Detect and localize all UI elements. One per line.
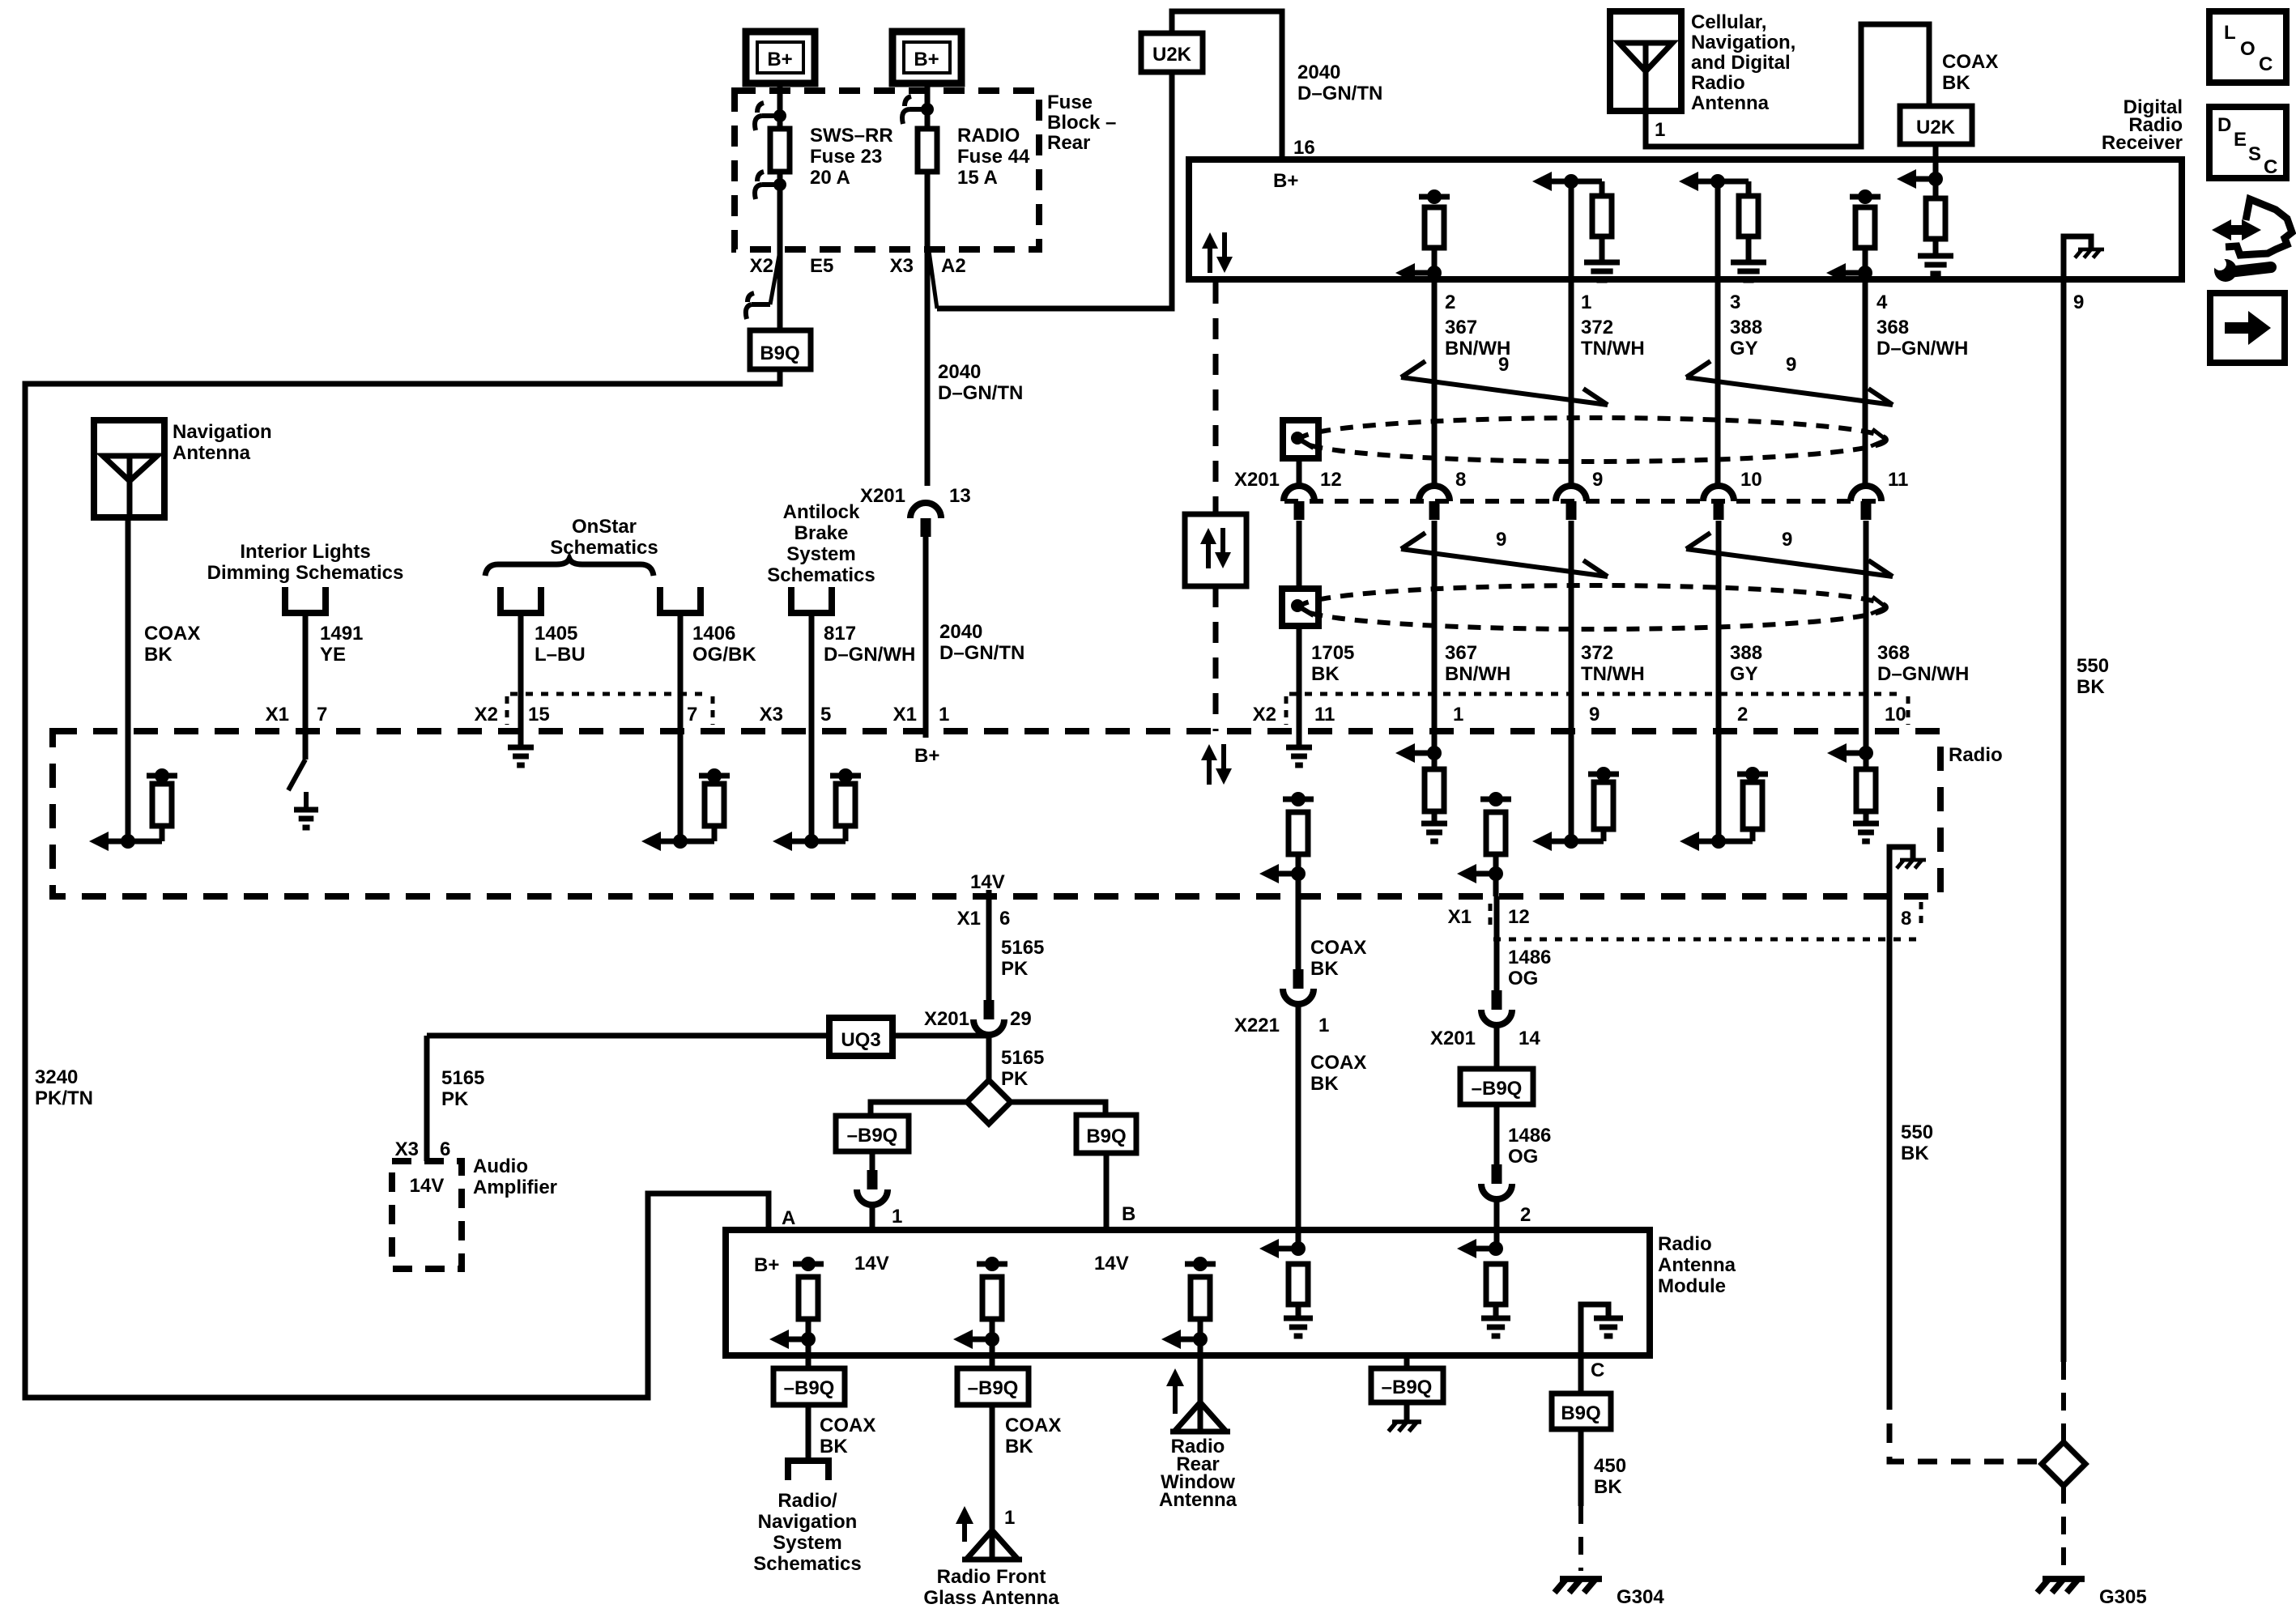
module B+ label: [754, 1254, 779, 1276]
svg-text:X1: X1: [893, 704, 917, 726]
wire 3240 PK/TN run to module pin A: [25, 369, 780, 1398]
svg-text:B+: B+: [1273, 170, 1298, 192]
wire splice to B9Q right: [1010, 1102, 1105, 1115]
offpage bracket interior lights: [285, 587, 326, 613]
svg-text:B9Q: B9Q: [760, 343, 799, 364]
svg-text:Glass Antenna: Glass Antenna: [923, 1587, 1059, 1609]
svg-text:D–GN/WH: D–GN/WH: [1876, 338, 1968, 360]
wire 450 BK solid: [1578, 1429, 1584, 1506]
inline connector X201-13: [910, 503, 941, 537]
svg-text:D–GN/TN: D–GN/TN: [939, 642, 1024, 664]
module 14V label 2: [1094, 1253, 1129, 1274]
radio 1705 ground: [1286, 731, 1312, 765]
svg-text:A: A: [782, 1207, 795, 1229]
svg-text:1: 1: [892, 1206, 902, 1228]
brace OnStar: [485, 559, 654, 576]
radio dimming input switch: [288, 731, 318, 828]
svg-text:YE: YE: [320, 644, 346, 666]
svg-text:12: 12: [1508, 906, 1530, 928]
updown box symbol: [1185, 514, 1246, 586]
svg-text:–B9Q: –B9Q: [968, 1377, 1019, 1399]
wire 550 BK from radio pin 8: [1887, 896, 1893, 1390]
receiver col pin3 resistor to ground: [1679, 172, 1766, 280]
label radio rear window antenna: [1159, 1436, 1237, 1511]
twisted pair ellipse 1: [1300, 418, 1886, 462]
option code B9Q 450: [1552, 1394, 1611, 1429]
coax wire nav antenna to radio: [126, 517, 131, 731]
svg-text:B9Q: B9Q: [1561, 1402, 1600, 1424]
dashed 450 BK to G304: [1578, 1506, 1583, 1571]
inline connector pin 2 module: [1481, 1164, 1531, 1226]
inline connector X201-8: [1419, 469, 1466, 520]
svg-text:Antenna: Antenna: [1691, 92, 1770, 114]
svg-text:UQ3: UQ3: [841, 1029, 880, 1051]
arrow front glass antenna: [956, 1506, 973, 1542]
wire -B9Q to connector: [870, 1151, 875, 1170]
radio antenna module outline: [726, 1230, 1650, 1355]
power feed B+ symbol 1: [746, 32, 815, 83]
svg-text:B+: B+: [767, 49, 792, 70]
svg-text:COAX: COAX: [1310, 937, 1366, 959]
wire to module pin 2: [1494, 1198, 1500, 1249]
svg-text:O: O: [2240, 38, 2256, 60]
svg-text:Schematics: Schematics: [550, 537, 658, 559]
svg-text:SWS–RR: SWS–RR: [810, 125, 893, 147]
svg-text:5165: 5165: [441, 1067, 484, 1089]
svg-text:550: 550: [1901, 1121, 1933, 1143]
cellular navigation digital radio antenna: [1610, 11, 1681, 111]
svg-text:X1: X1: [957, 908, 981, 930]
svg-text:BK: BK: [1005, 1436, 1033, 1457]
svg-text:D: D: [2217, 114, 2231, 136]
wire 1486 OG out of radio: [1494, 896, 1500, 990]
svg-text:PK/TN: PK/TN: [35, 1087, 93, 1109]
pin X3-5 labels: [760, 704, 832, 726]
svg-text:2040: 2040: [939, 621, 982, 643]
wire 368 lower: [1864, 521, 1869, 731]
power feed B+ symbol 2: [892, 32, 961, 83]
svg-text:1405: 1405: [535, 623, 577, 645]
wire label 367 BN/WH upper: [1445, 317, 1510, 360]
svg-text:1491: 1491: [320, 623, 363, 645]
receiver col pin1 resistor to ground: [1532, 172, 1620, 280]
svg-text:1486: 1486: [1508, 1125, 1551, 1147]
offpage arrow 9 row1 right: [1686, 354, 1893, 405]
svg-text:1406: 1406: [692, 623, 735, 645]
label radio navigation system schematics: [753, 1490, 861, 1575]
svg-text:11: 11: [1314, 704, 1335, 726]
svg-text:E: E: [2234, 129, 2247, 151]
svg-text:14V: 14V: [970, 871, 1005, 893]
wire to module pin 1: [870, 1204, 875, 1230]
offpage bracket OnStar 1406: [660, 587, 701, 613]
pin A label: [782, 1207, 795, 1229]
inline connector X201-11: [1851, 469, 1908, 520]
wire label 367 BN/WH lower: [1445, 642, 1510, 685]
receiver col pin2 resistor: [1395, 189, 1450, 283]
wire label COAX BK x221 upper: [1310, 937, 1366, 980]
svg-text:–B9Q: –B9Q: [784, 1377, 835, 1399]
radio 367 termination: [1395, 731, 1447, 841]
label Fuse Block - Rear: [1047, 91, 1116, 154]
svg-text:D–GN/WH: D–GN/WH: [1877, 663, 1969, 685]
svg-text:Navigation: Navigation: [758, 1511, 858, 1533]
svg-text:Radio: Radio: [1691, 72, 1745, 94]
offpage arrow 9 row1 left: [1401, 354, 1608, 405]
option code B9Q (SWS): [750, 330, 811, 369]
wire label 450 BK: [1594, 1455, 1626, 1498]
inline connector X221-1: [1283, 969, 1314, 1004]
svg-text:2040: 2040: [1297, 62, 1340, 83]
svg-text:450: 450: [1594, 1455, 1626, 1477]
label cellular antenna: [1691, 11, 1795, 114]
wire E5 to B9Q: [777, 249, 783, 330]
wire 1405 L-BU: [518, 613, 524, 731]
svg-text:PK: PK: [441, 1088, 469, 1110]
svg-text:1: 1: [1655, 119, 1665, 141]
svg-text:BK: BK: [820, 1436, 848, 1457]
wire fuse23 to X2-E5: [777, 172, 783, 249]
wire label 1405 L-BU: [535, 623, 586, 666]
inline connector X201-29: [973, 1000, 1004, 1035]
drain wire 1705 BK: [1297, 626, 1302, 731]
radio coax output resistor: [1259, 792, 1314, 896]
inline connector X201-10: [1703, 469, 1762, 520]
module coax termination: [1259, 1239, 1313, 1336]
svg-text:B: B: [1122, 1203, 1135, 1225]
svg-text:GY: GY: [1730, 338, 1758, 360]
svg-text:368: 368: [1877, 642, 1910, 664]
svg-text:PK: PK: [1001, 1068, 1029, 1090]
option code -B9Q nav out: [773, 1368, 845, 1405]
option code -B9Q radio antenna: [836, 1116, 909, 1151]
svg-text:16: 16: [1293, 137, 1315, 159]
receiver B+ label: [1273, 170, 1298, 192]
pin 9 radio label: [1589, 704, 1600, 726]
svg-text:G304: G304: [1617, 1586, 1664, 1608]
svg-text:7: 7: [317, 704, 327, 726]
label OnStar schematics: [550, 516, 658, 559]
svg-text:X3: X3: [760, 704, 783, 726]
wire label 368 D-GN/WH upper: [1876, 317, 1968, 360]
wire B9Q to module pin B: [1106, 1153, 1135, 1230]
module pin C internal ground: [1581, 1304, 1623, 1355]
svg-text:BK: BK: [1310, 958, 1339, 980]
wire label COAX BK nav out: [820, 1415, 875, 1457]
svg-text:Fuse: Fuse: [1047, 91, 1093, 113]
wire 2040 upper segment: [925, 249, 931, 486]
svg-text:2040: 2040: [938, 361, 981, 383]
svg-text:8: 8: [1901, 908, 1911, 930]
svg-text:OG: OG: [1508, 968, 1538, 989]
svg-text:OnStar: OnStar: [572, 516, 637, 538]
wire label 2040 D-GN/TN top: [1297, 62, 1382, 104]
labels X221 1: [1234, 1015, 1329, 1036]
svg-text:1705: 1705: [1311, 642, 1354, 664]
wire -B9Q to connector 2: [1494, 1104, 1500, 1164]
fuse block dashed outline: [735, 91, 1039, 249]
svg-text:L–BU: L–BU: [535, 644, 586, 666]
pin 10 radio label: [1885, 704, 1906, 726]
option code -B9Q ground: [1371, 1368, 1443, 1402]
wire 372 upper: [1569, 279, 1574, 486]
svg-text:X3: X3: [890, 255, 914, 277]
svg-text:Rear: Rear: [1047, 132, 1090, 154]
svg-text:9: 9: [1589, 704, 1600, 726]
svg-text:X201: X201: [924, 1008, 969, 1030]
wire coax nav out: [806, 1405, 811, 1461]
radio 1406 termination: [641, 731, 730, 851]
svg-text:Radio: Radio: [1949, 744, 2003, 766]
splice diamond 5165: [967, 1080, 1011, 1124]
label audio amplifier: [473, 1155, 557, 1198]
svg-text:1: 1: [939, 704, 949, 726]
svg-text:BK: BK: [144, 644, 173, 666]
wire UQ3 right: [892, 1033, 989, 1039]
twisted pair ellipse 2: [1300, 585, 1886, 629]
wire label 1406 OG/BK: [692, 623, 756, 666]
svg-text:BK: BK: [1942, 72, 1970, 94]
option code UQ3: [829, 1018, 892, 1056]
svg-text:D–GN/TN: D–GN/TN: [1297, 83, 1382, 104]
receiver updown arrows: [1202, 232, 1233, 273]
wire label 5165 PK upper: [1001, 937, 1044, 980]
svg-text:Cellular,: Cellular,: [1691, 11, 1766, 33]
svg-text:–B9Q: –B9Q: [847, 1125, 898, 1147]
wire label 388 GY lower: [1730, 642, 1762, 685]
offpage arrow 9 row2 left: [1401, 529, 1608, 577]
svg-text:9: 9: [2073, 291, 2084, 313]
wire 2040 lower segment: [923, 537, 929, 738]
offpage bracket radio nav schematics: [788, 1461, 829, 1480]
label antilock brake system schematics: [767, 501, 875, 586]
pin 2 radio label: [1737, 704, 1748, 726]
svg-text:Module: Module: [1658, 1275, 1726, 1297]
svg-text:20 A: 20 A: [810, 167, 850, 189]
option code U2K 2: [1900, 106, 1972, 144]
wire coax bk to module: [1296, 1003, 1301, 1249]
wire label 817 D-GN/WH: [824, 623, 915, 666]
svg-text:14V: 14V: [854, 1253, 889, 1274]
wire label 2040 D-GN/TN lower: [939, 621, 1024, 664]
svg-text:TN/WH: TN/WH: [1581, 663, 1645, 685]
icon vehicle hotlink with wrench: [2212, 199, 2292, 282]
svg-text:Amplifier: Amplifier: [473, 1177, 557, 1198]
svg-text:COAX: COAX: [1005, 1415, 1061, 1436]
svg-text:10: 10: [1740, 469, 1762, 491]
svg-text:1486: 1486: [1508, 947, 1551, 968]
svg-text:9: 9: [1496, 529, 1506, 551]
wire 817 D-GN/WH: [809, 613, 815, 731]
svg-text:7: 7: [687, 704, 697, 726]
terminal at E5: [746, 251, 780, 319]
module col front resistor: [953, 1257, 1007, 1368]
drain wire upper: [1297, 458, 1302, 486]
wire 388 upper: [1715, 279, 1721, 486]
radio updown arrows: [1201, 744, 1232, 785]
labels X201 14: [1430, 1028, 1540, 1049]
svg-text:Radio/: Radio/: [777, 1490, 837, 1512]
radio nav coax termination: [89, 731, 177, 851]
svg-text:1: 1: [1453, 704, 1463, 726]
svg-text:9: 9: [1782, 529, 1792, 551]
svg-text:X201: X201: [1430, 1028, 1476, 1049]
svg-text:–B9Q: –B9Q: [1382, 1377, 1433, 1398]
svg-text:Antenna: Antenna: [1159, 1489, 1237, 1511]
svg-text:1: 1: [1581, 291, 1591, 313]
svg-text:Schematics: Schematics: [767, 564, 875, 586]
wire UQ3 left: [427, 1033, 829, 1039]
labels X2 15 7: [475, 704, 698, 726]
svg-text:Antilock: Antilock: [783, 501, 860, 523]
radio rear window antenna symbol: [1170, 1402, 1230, 1432]
svg-text:1: 1: [1004, 1507, 1015, 1529]
offpage arrow 9 row2 right: [1686, 529, 1893, 577]
wire 367 lower: [1432, 521, 1438, 731]
svg-text:13: 13: [949, 485, 971, 507]
receiver pin9 chassis ground: [2064, 236, 2104, 279]
pin X3-6 labels: [395, 1138, 451, 1160]
svg-text:14: 14: [1519, 1028, 1540, 1049]
svg-text:9: 9: [1498, 354, 1509, 376]
pin 1 label: [1581, 291, 1591, 313]
label interior lights dimming schematics: [207, 541, 404, 584]
radio 388 termination: [1680, 731, 1768, 851]
wire U2K2 to receiver: [1933, 144, 1939, 160]
svg-text:Navigation: Navigation: [173, 421, 272, 443]
svg-text:Schematics: Schematics: [753, 1553, 861, 1575]
inline connector X201-14: [1481, 990, 1512, 1025]
svg-text:367: 367: [1445, 642, 1477, 664]
wire fuse44 to X3-A2: [925, 172, 931, 249]
wire B+1 to fuse 23: [777, 83, 783, 129]
svg-text:817: 817: [824, 623, 856, 645]
svg-text:–B9Q: –B9Q: [1472, 1078, 1523, 1100]
pin 3 label: [1730, 291, 1740, 313]
svg-text:Block –: Block –: [1047, 112, 1116, 134]
svg-text:COAX: COAX: [144, 623, 200, 645]
pin 9 label: [2073, 291, 2084, 313]
svg-text:2: 2: [1737, 704, 1748, 726]
svg-text:BK: BK: [1310, 1073, 1339, 1095]
svg-text:367: 367: [1445, 317, 1477, 338]
svg-text:and Digital: and Digital: [1691, 52, 1791, 74]
label Radio: [1949, 744, 2003, 766]
fuse RADIO Fuse 44 15A: [902, 96, 1030, 189]
svg-text:D–GN/WH: D–GN/WH: [824, 644, 915, 666]
svg-text:4: 4: [1876, 291, 1888, 313]
svg-text:C: C: [1591, 1360, 1604, 1381]
svg-text:U2K: U2K: [1152, 44, 1192, 66]
offpage bracket OnStar 1405: [501, 587, 541, 613]
connector X2 dotted bracket left: [507, 694, 713, 725]
radio B+ label: [914, 745, 939, 767]
svg-text:X201: X201: [1234, 469, 1280, 491]
chassis ground below -B9Q: [1389, 1402, 1422, 1432]
svg-text:X3: X3: [395, 1138, 419, 1160]
wire 1486 to -B9Q: [1494, 1024, 1500, 1069]
pin X1-12 labels: [1448, 904, 1530, 930]
label radio antenna module: [1658, 1233, 1736, 1297]
svg-text:X201: X201: [860, 485, 905, 507]
svg-text:5: 5: [820, 704, 831, 726]
svg-text:X221: X221: [1234, 1015, 1280, 1036]
dashed 550 BK right: [2061, 1362, 2066, 1442]
svg-text:System: System: [786, 543, 855, 565]
svg-text:G305: G305: [2099, 1586, 2147, 1608]
wire 1491 YE: [303, 613, 309, 731]
radio chassis ground pin 8: [1889, 847, 1926, 896]
option code -B9Q 1486: [1460, 1069, 1533, 1104]
svg-text:X2: X2: [475, 704, 498, 726]
icon arrow box: [2210, 293, 2285, 363]
svg-text:550: 550: [2077, 655, 2109, 677]
svg-text:Navigation,: Navigation,: [1691, 32, 1795, 53]
svg-text:12: 12: [1320, 469, 1342, 491]
wire B+2 to fuse 44: [925, 83, 931, 129]
pin X1-1 labels: [893, 704, 950, 726]
shield drain box 1: [1283, 420, 1318, 458]
svg-text:372: 372: [1581, 642, 1613, 664]
module 1486 termination: [1457, 1239, 1510, 1336]
svg-text:3: 3: [1730, 291, 1740, 313]
svg-text:Interior Lights: Interior Lights: [240, 541, 370, 563]
svg-text:Dimming Schematics: Dimming Schematics: [207, 562, 404, 584]
wire 372 lower: [1569, 521, 1574, 731]
svg-text:BN/WH: BN/WH: [1445, 663, 1510, 685]
pin 11 radio label: [1314, 704, 1335, 726]
pin X1-6 labels: [957, 908, 1011, 930]
wire pin C: [1578, 1355, 1584, 1394]
inline connector X201-9: [1556, 469, 1603, 520]
radio 368 termination: [1827, 731, 1879, 841]
svg-text:C: C: [2264, 156, 2277, 178]
svg-text:GY: GY: [1730, 663, 1758, 685]
svg-text:Fuse 44: Fuse 44: [957, 146, 1030, 168]
wire label COAX BK nav: [144, 623, 200, 666]
pin 1 label antenna: [1655, 119, 1665, 141]
wire 367 upper: [1432, 279, 1438, 486]
radio 14V label: [970, 871, 1005, 893]
option code B9Q right: [1076, 1115, 1136, 1153]
ground G304: [1555, 1579, 1665, 1608]
wire label 3240 PK/TN: [35, 1066, 93, 1109]
wire label COAX BK front out: [1005, 1415, 1061, 1457]
wire label 550 BK right: [2077, 655, 2109, 698]
icon LOC box: [2209, 11, 2286, 83]
svg-text:Receiver: Receiver: [2102, 132, 2183, 154]
svg-text:6: 6: [440, 1138, 450, 1160]
connector X1 dotted bracket: [1493, 902, 1921, 939]
dashed link updown box to radio: [1213, 586, 1219, 731]
svg-text:Radio Front: Radio Front: [937, 1566, 1046, 1588]
module 14V label 1: [854, 1253, 889, 1274]
offpage bracket ABS: [791, 587, 832, 613]
radio 1405 ground: [508, 731, 534, 765]
label X2 right: [1253, 704, 1276, 726]
wire label COAX BK x221 lower: [1310, 1052, 1366, 1095]
svg-text:15: 15: [528, 704, 550, 726]
navigation antenna: [94, 420, 164, 517]
label Digital Radio Receiver: [2102, 96, 2183, 154]
receiver col pin4 resistor: [1826, 189, 1881, 283]
svg-text:B+: B+: [914, 49, 939, 70]
svg-text:X1: X1: [1448, 906, 1472, 928]
wire -B9Q ground col: [1404, 1355, 1410, 1368]
svg-text:1: 1: [1318, 1015, 1329, 1036]
wire label 368 D-GN/WH lower: [1877, 642, 1969, 685]
svg-text:COAX: COAX: [820, 1415, 875, 1436]
